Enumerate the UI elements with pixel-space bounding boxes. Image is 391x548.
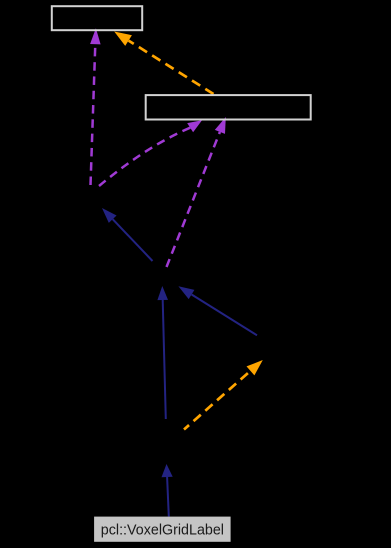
class box A gray border xyxy=(52,6,142,30)
class box B black fill xyxy=(146,95,311,119)
solid blue arrow VoxelGridLabel box to node F xyxy=(162,464,173,517)
svg-text:pcl::VoxelGridLabel: pcl::VoxelGridLabel xyxy=(101,523,224,539)
dashed purple curved arrow node C to box B xyxy=(99,120,202,186)
class box A black fill xyxy=(52,6,142,30)
solid blue arrow node E to node D xyxy=(178,286,257,335)
dashed purple arrow node D to box B xyxy=(167,117,226,267)
class box B gray border xyxy=(146,95,311,119)
solid blue arrow node F to node D xyxy=(157,286,168,419)
highlighted class box pcl::VoxelGridLabel xyxy=(94,517,231,542)
dashed purple arrow node C to box A xyxy=(90,28,101,185)
solid blue arrow node D to node C xyxy=(102,208,153,261)
dashed orange arrow box B to box A xyxy=(114,32,213,95)
dashed orange arrow node F to node E xyxy=(184,360,263,430)
